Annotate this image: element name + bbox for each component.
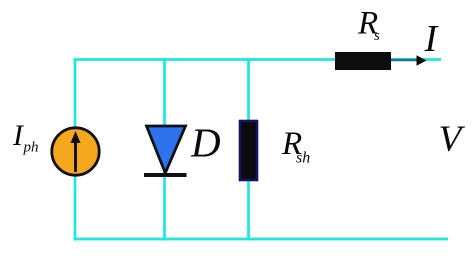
svg-text:ph: ph xyxy=(23,140,39,156)
svg-text:D: D xyxy=(190,120,221,166)
svg-text:s: s xyxy=(374,28,380,44)
svg-text:V: V xyxy=(439,119,466,160)
svg-text:sh: sh xyxy=(296,150,310,167)
svg-text:I: I xyxy=(424,18,440,60)
